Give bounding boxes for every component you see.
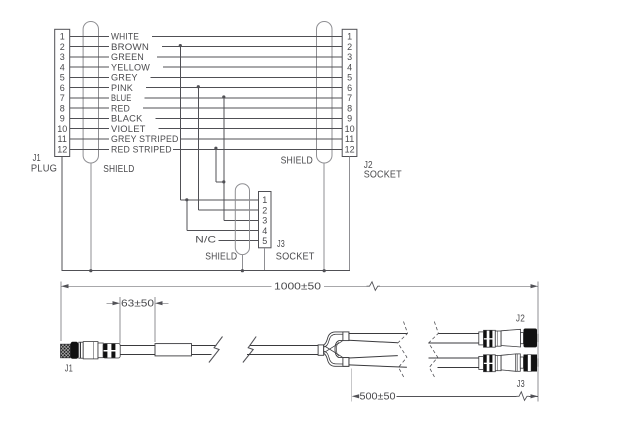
svg-text:PLUG: PLUG bbox=[31, 164, 57, 175]
label SHIELD (J3) bbox=[205, 251, 237, 262]
svg-text:6: 6 bbox=[347, 83, 352, 93]
cable break symbol right bbox=[243, 337, 256, 363]
connector J3 ring bbox=[516, 354, 521, 371]
connector J2 ring band bbox=[495, 331, 501, 346]
svg-text:11: 11 bbox=[58, 134, 67, 144]
svg-text:2: 2 bbox=[347, 42, 352, 52]
label N/C bbox=[195, 234, 216, 244]
svg-text:J3: J3 bbox=[517, 379, 525, 390]
Y-splitter molded body bbox=[324, 332, 349, 366]
connector J3 strain band bbox=[479, 356, 484, 369]
connector J3 striped nut bbox=[524, 355, 538, 372]
junction dot J1 shield on bus bbox=[89, 269, 92, 272]
connector J1 knurled nut (hatched) bbox=[61, 344, 71, 358]
cable break symbol left bbox=[209, 337, 223, 363]
wire GREY : J1 pin 5 to J2 pin 5 bbox=[70, 73, 343, 83]
svg-text:BROWN: BROWN bbox=[111, 42, 149, 52]
connector J2 pin numbers 1-12 bbox=[345, 32, 355, 155]
J2 cable shield symbol bbox=[317, 22, 333, 164]
label J3 (cable) bbox=[517, 379, 525, 390]
connector J2 knurled nut (black) bbox=[524, 329, 538, 348]
connector J3 body shell bbox=[501, 354, 516, 371]
connector J1 threaded section bbox=[103, 344, 120, 359]
svg-text:BLACK: BLACK bbox=[111, 114, 143, 124]
label J1 (cable) bbox=[65, 364, 73, 375]
svg-text:YELLOW: YELLOW bbox=[111, 62, 150, 72]
svg-text:9: 9 bbox=[60, 114, 65, 124]
wire YELLOW : J1 pin 4 to J2 pin 4 bbox=[70, 62, 343, 72]
wire tap BROWN to J3 pin 1 bbox=[180, 46, 258, 200]
branch cable top after break bbox=[429, 334, 479, 344]
connector J1 ring bbox=[79, 342, 83, 358]
wire tap PINK to J3 pin 2 bbox=[198, 87, 258, 210]
svg-text:GREY STRIPED: GREY STRIPED bbox=[111, 134, 179, 144]
svg-text:5: 5 bbox=[347, 73, 352, 83]
svg-text:7: 7 bbox=[347, 93, 352, 103]
junction dot on BLUE wire bbox=[222, 95, 225, 98]
svg-text:8: 8 bbox=[60, 103, 65, 113]
label J2 SOCKET bbox=[364, 160, 402, 181]
connector J2 body shell bbox=[501, 329, 520, 347]
junction dot J2 shield on bus bbox=[323, 269, 326, 272]
svg-text:J1: J1 bbox=[33, 153, 41, 164]
svg-text:4: 4 bbox=[60, 62, 65, 72]
wire J1 body to shield bus bbox=[61, 157, 63, 271]
connector J1 pin numbers 1-12 bbox=[57, 32, 67, 155]
wire GREY STRIPED : J1 pin 11 to J2 pin 11 bbox=[70, 134, 343, 144]
svg-text:12: 12 bbox=[345, 144, 355, 154]
connector J3 pin numbers 1-5 bbox=[262, 195, 267, 246]
svg-text:1: 1 bbox=[262, 195, 267, 205]
svg-text:N/C: N/C bbox=[195, 234, 216, 244]
wire J3 body to bus bbox=[264, 248, 266, 271]
connector J3 ring band bbox=[495, 356, 501, 371]
junction dot on RED STRIPED wire bbox=[214, 147, 217, 150]
Y-splitter bottom exit collar bbox=[343, 358, 349, 367]
svg-text:SHIELD: SHIELD bbox=[103, 164, 134, 175]
wire BLUE : J1 pin 7 to J2 pin 7 bbox=[70, 93, 343, 103]
J1 cable shield symbol bbox=[83, 22, 98, 164]
dimension text 1000±50 bbox=[274, 282, 322, 293]
label J2 (cable) bbox=[516, 313, 525, 324]
svg-text:SOCKET: SOCKET bbox=[364, 170, 402, 181]
wire J3 shield to bus bbox=[241, 255, 243, 271]
svg-text:SOCKET: SOCKET bbox=[276, 251, 315, 262]
dimension text 63±50 bbox=[121, 299, 155, 310]
svg-text:1: 1 bbox=[60, 32, 65, 42]
branch cable bottom (to J3) before break bbox=[349, 356, 407, 368]
wire J2 shield to bus bbox=[323, 163, 325, 271]
label SHIELD (J1) bbox=[103, 164, 134, 175]
svg-text:J1: J1 bbox=[65, 364, 73, 375]
svg-text:GREY: GREY bbox=[111, 73, 138, 83]
dimension line 63±50 arrows bbox=[106, 301, 168, 305]
svg-text:2: 2 bbox=[262, 205, 267, 215]
svg-text:12: 12 bbox=[57, 144, 67, 154]
dimension 1000±50 extension line left bbox=[60, 282, 62, 342]
wire GREEN : J1 pin 3 to J2 pin 3 bbox=[70, 52, 343, 62]
connector J1 collar band bbox=[98, 343, 103, 358]
wire tap BLUE to J3 pin 3 bbox=[224, 97, 259, 220]
cable segment break to Y-splitter bbox=[247, 346, 319, 355]
wire branch to J3 pin 4 bbox=[187, 200, 259, 231]
cable label sleeve bbox=[155, 344, 192, 356]
connector J2 neck bbox=[521, 333, 524, 344]
svg-text:5: 5 bbox=[262, 236, 267, 246]
connector J1 body bbox=[55, 29, 70, 156]
branch break dashed right bbox=[429, 322, 439, 379]
svg-text:3: 3 bbox=[347, 52, 352, 62]
svg-text:4: 4 bbox=[262, 226, 267, 236]
svg-text:5: 5 bbox=[60, 73, 65, 83]
wire tap RED STRIPED joining BLUE tap bbox=[216, 148, 224, 182]
wire WHITE : J1 pin 1 to J2 pin 1 bbox=[70, 32, 343, 42]
svg-text:RED STRIPED: RED STRIPED bbox=[111, 144, 172, 154]
svg-text:6: 6 bbox=[60, 83, 65, 93]
svg-text:3: 3 bbox=[60, 52, 65, 62]
dimension text 500±50 bbox=[360, 392, 397, 403]
dimension 1000±50 extension line right bbox=[537, 282, 539, 402]
wire VIOLET : J1 pin 10 to J2 pin 10 bbox=[70, 124, 343, 134]
wire N/C to J3 pin 5 bbox=[218, 240, 258, 242]
junction dot J3 shield on bus bbox=[241, 269, 244, 272]
branch cable top (to J2) before break bbox=[349, 334, 408, 343]
connector J2 body bbox=[342, 29, 357, 156]
Y-splitter top exit collar bbox=[343, 332, 349, 341]
svg-text:11: 11 bbox=[345, 134, 354, 144]
dimension line 1000±50 bbox=[61, 282, 538, 291]
svg-text:4: 4 bbox=[347, 62, 352, 72]
svg-text:J3: J3 bbox=[277, 239, 285, 250]
connector J3 threaded section bbox=[484, 355, 496, 372]
Y-splitter inner mold lines bbox=[324, 334, 343, 364]
junction dot RED STRIPED to BLUE tap bbox=[222, 180, 225, 183]
connector J3 face nub bbox=[537, 358, 539, 366]
svg-text:8: 8 bbox=[347, 103, 352, 113]
svg-text:7: 7 bbox=[60, 93, 65, 103]
svg-text:PINK: PINK bbox=[111, 83, 134, 93]
cable segment J1 to sleeve bbox=[120, 346, 155, 355]
connector J2 strain band bbox=[479, 332, 484, 345]
svg-text:VIOLET: VIOLET bbox=[111, 124, 146, 134]
svg-text:GREEN: GREEN bbox=[111, 52, 144, 62]
svg-text:SHIELD: SHIELD bbox=[281, 155, 313, 166]
svg-text:J2: J2 bbox=[516, 313, 525, 324]
dimension line 500±50 bbox=[352, 392, 538, 401]
dimension 500±50 extension line left bbox=[351, 369, 353, 402]
wire J2 body to bus bbox=[349, 157, 351, 271]
connector J3 neck bbox=[520, 357, 523, 368]
svg-text:9: 9 bbox=[347, 114, 352, 124]
label J1 PLUG bbox=[31, 153, 57, 175]
junction dot on PINK wire bbox=[197, 85, 200, 88]
branch break dashed left bbox=[398, 322, 408, 379]
svg-text:SHIELD: SHIELD bbox=[205, 251, 237, 262]
J3 cable shield symbol bbox=[235, 184, 249, 255]
wire RED STRIPED : J1 pin 12 to J2 pin 12 bbox=[70, 144, 343, 154]
svg-text:63±50: 63±50 bbox=[121, 299, 155, 310]
svg-text:2: 2 bbox=[60, 42, 65, 52]
junction dot pin1/pin4 branch bbox=[185, 198, 188, 201]
connector J2 face nub bbox=[537, 334, 539, 342]
Y-splitter collar bbox=[318, 345, 324, 355]
svg-text:WHITE: WHITE bbox=[111, 32, 139, 42]
cable segment sleeve to break bbox=[192, 346, 217, 355]
svg-text:BLUE: BLUE bbox=[111, 93, 132, 103]
label SHIELD (J2) bbox=[281, 155, 313, 166]
shield bus wire bbox=[62, 270, 351, 272]
junction dot on BROWN wire bbox=[179, 44, 182, 47]
wire BLACK : J1 pin 9 to J2 pin 9 bbox=[70, 114, 343, 124]
svg-text:500±50: 500±50 bbox=[360, 392, 397, 403]
connector J1 body shell bbox=[83, 342, 98, 359]
wire BROWN : J1 pin 2 to J2 pin 2 bbox=[70, 42, 343, 52]
svg-text:1: 1 bbox=[347, 32, 352, 42]
connector J3 body bbox=[259, 192, 272, 248]
wire J1 shield to bus bbox=[90, 163, 92, 271]
svg-text:RED: RED bbox=[111, 103, 130, 113]
wire PINK : J1 pin 6 to J2 pin 6 bbox=[70, 83, 343, 93]
dimension 63±50 extension lines bbox=[120, 297, 155, 344]
connector J2 threaded section bbox=[484, 330, 496, 347]
svg-text:10: 10 bbox=[57, 124, 67, 134]
svg-text:3: 3 bbox=[262, 216, 267, 226]
svg-text:10: 10 bbox=[345, 124, 355, 134]
connector J1 locknut (black) bbox=[71, 342, 79, 359]
wire RED : J1 pin 8 to J2 pin 8 bbox=[70, 103, 343, 113]
label J3 SOCKET bbox=[276, 239, 315, 262]
branch cable bottom after break bbox=[429, 358, 479, 367]
svg-text:1000±50: 1000±50 bbox=[274, 282, 322, 293]
